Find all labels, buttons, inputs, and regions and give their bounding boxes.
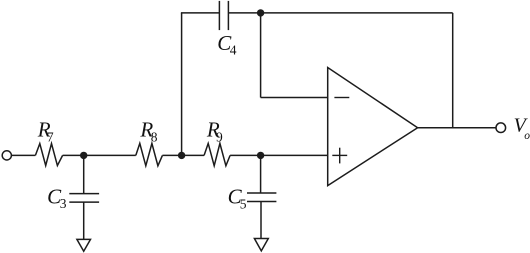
wire	[452, 13, 454, 128]
input terminal	[2, 151, 11, 160]
ground	[254, 239, 268, 251]
wire	[83, 155, 85, 193]
ground	[77, 239, 91, 251]
svg-text:o: o	[524, 130, 530, 142]
output terminal	[496, 123, 506, 133]
wire	[260, 202, 262, 239]
op-amp U1	[328, 68, 418, 186]
wire	[12, 154, 36, 156]
wire	[260, 13, 262, 98]
capacitor C4	[217, 1, 236, 58]
node A	[80, 152, 87, 159]
svg-text:4: 4	[230, 42, 237, 57]
wire	[228, 12, 452, 14]
wire	[261, 97, 328, 99]
wire	[162, 154, 204, 156]
wire	[181, 12, 220, 14]
wire	[230, 154, 328, 156]
wire	[63, 154, 136, 156]
svg-text:5: 5	[240, 196, 247, 211]
wire	[83, 202, 85, 239]
node C	[257, 9, 264, 16]
capacitor C5	[228, 185, 277, 212]
wire	[418, 127, 496, 129]
node B	[178, 152, 185, 159]
resistor R9	[204, 117, 230, 165]
wire	[181, 13, 183, 156]
resistor R8	[136, 117, 163, 165]
resistor R7	[35, 117, 62, 165]
label Vo	[514, 115, 530, 142]
wire	[260, 155, 262, 193]
svg-text:8: 8	[151, 130, 158, 145]
svg-text:3: 3	[60, 196, 67, 211]
svg-text:9: 9	[216, 130, 223, 145]
svg-text:7: 7	[47, 130, 54, 145]
capacitor C3	[47, 185, 99, 212]
node D	[257, 152, 264, 159]
